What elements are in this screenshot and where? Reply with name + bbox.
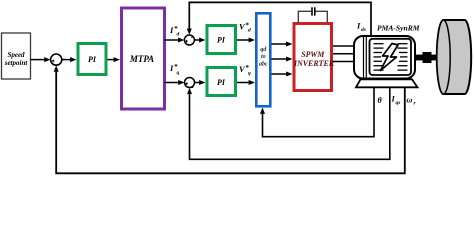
wire I_qs feedback (motor bottom to S3)	[187, 87, 390, 159]
load flywheel	[437, 20, 471, 94]
wire inverter to motor phase a	[333, 45, 355, 47]
svg-text:d: d	[177, 32, 180, 38]
wire MTPA to summing junction S2 (d-axis)	[164, 38, 184, 43]
svg-text:q: q	[248, 71, 251, 77]
svg-text:SPWM: SPWM	[301, 50, 325, 59]
wire PI to MTPA	[108, 57, 121, 62]
capacitor C (DC link)	[312, 7, 315, 15]
motor lamination fins left	[374, 44, 384, 70]
block: Speed setpoint	[2, 33, 31, 79]
label V*_d	[239, 22, 251, 34]
DC link wire top right	[316, 10, 328, 12]
block: qd to abc transform	[256, 13, 270, 106]
DC link wire right	[326, 11, 328, 22]
label omega_r	[407, 96, 417, 107]
block: PI q-axis current controller	[207, 68, 236, 96]
motor stator window	[370, 39, 412, 75]
svg-text:ω: ω	[407, 96, 413, 105]
wire inverter to motor phase c	[333, 61, 355, 63]
wire MTPA to summing junction S3 (q-axis)	[164, 80, 185, 85]
wire qd-abc to inverter phase a	[272, 42, 293, 47]
label V*_q	[239, 64, 251, 77]
lightning bolt symbol	[381, 44, 399, 71]
block: MTPA	[122, 8, 165, 109]
label I_qs	[391, 94, 401, 107]
wire S3 to PI q-axis	[195, 80, 206, 85]
motor shaft	[415, 55, 438, 61]
svg-text:setpoint: setpoint	[4, 59, 29, 67]
DC link wire top left	[298, 10, 312, 12]
block: SPWM inverter	[293, 24, 335, 91]
svg-text:PI: PI	[88, 55, 97, 64]
svg-text:ds: ds	[361, 27, 366, 33]
wire qd-abc to inverter phase c	[272, 72, 293, 77]
svg-text:qs: qs	[396, 100, 401, 106]
wire qd-abc to inverter phase b	[272, 57, 293, 62]
wire S1 to PI speed controller	[62, 57, 77, 62]
wire I_ds feedback (motor top, over the top, down into S2)	[187, 2, 371, 35]
summing junction S3 (q-axis current)	[185, 78, 195, 88]
svg-text:INVERTER: INVERTER	[293, 59, 335, 68]
label I*_d	[169, 25, 180, 38]
svg-text:PI: PI	[217, 78, 226, 87]
wire PI d-axis to qd-abc block	[237, 38, 255, 43]
DC link wire left	[297, 11, 299, 22]
label I_ds	[356, 21, 366, 34]
svg-text:abc: abc	[259, 61, 268, 67]
shaft coupling	[423, 52, 432, 63]
svg-text:PI: PI	[217, 35, 226, 44]
block: PI speed controller	[78, 44, 106, 75]
wire setpoint to summing junction S1	[31, 57, 51, 62]
block: PI d-axis current controller	[207, 26, 236, 54]
wire theta feedback (motor bottom to qd-abc)	[260, 87, 374, 136]
motor lamination fins right	[398, 44, 408, 70]
wire S2 to PI d-axis	[194, 38, 205, 43]
svg-text:q: q	[177, 70, 180, 76]
svg-text:PMA-SynRM: PMA-SynRM	[377, 26, 421, 33]
svg-text:qd: qd	[260, 47, 267, 53]
summing junction S2 (d-axis current)	[184, 35, 194, 45]
wire omega_r feedback (motor bottom to S1)	[54, 65, 405, 173]
summing junction S1 (speed loop)	[51, 54, 62, 65]
motor PMA-SynRM body	[354, 36, 415, 79]
svg-text:MTPA: MTPA	[129, 54, 154, 64]
wire PI q-axis to qd-abc block	[237, 80, 255, 85]
label I*_q	[169, 63, 180, 76]
svg-text:to: to	[261, 54, 266, 60]
motor base pedestal	[356, 79, 418, 87]
wire inverter to motor phase b	[333, 53, 355, 55]
svg-text:d: d	[248, 28, 251, 34]
svg-text:Speed: Speed	[7, 51, 25, 59]
